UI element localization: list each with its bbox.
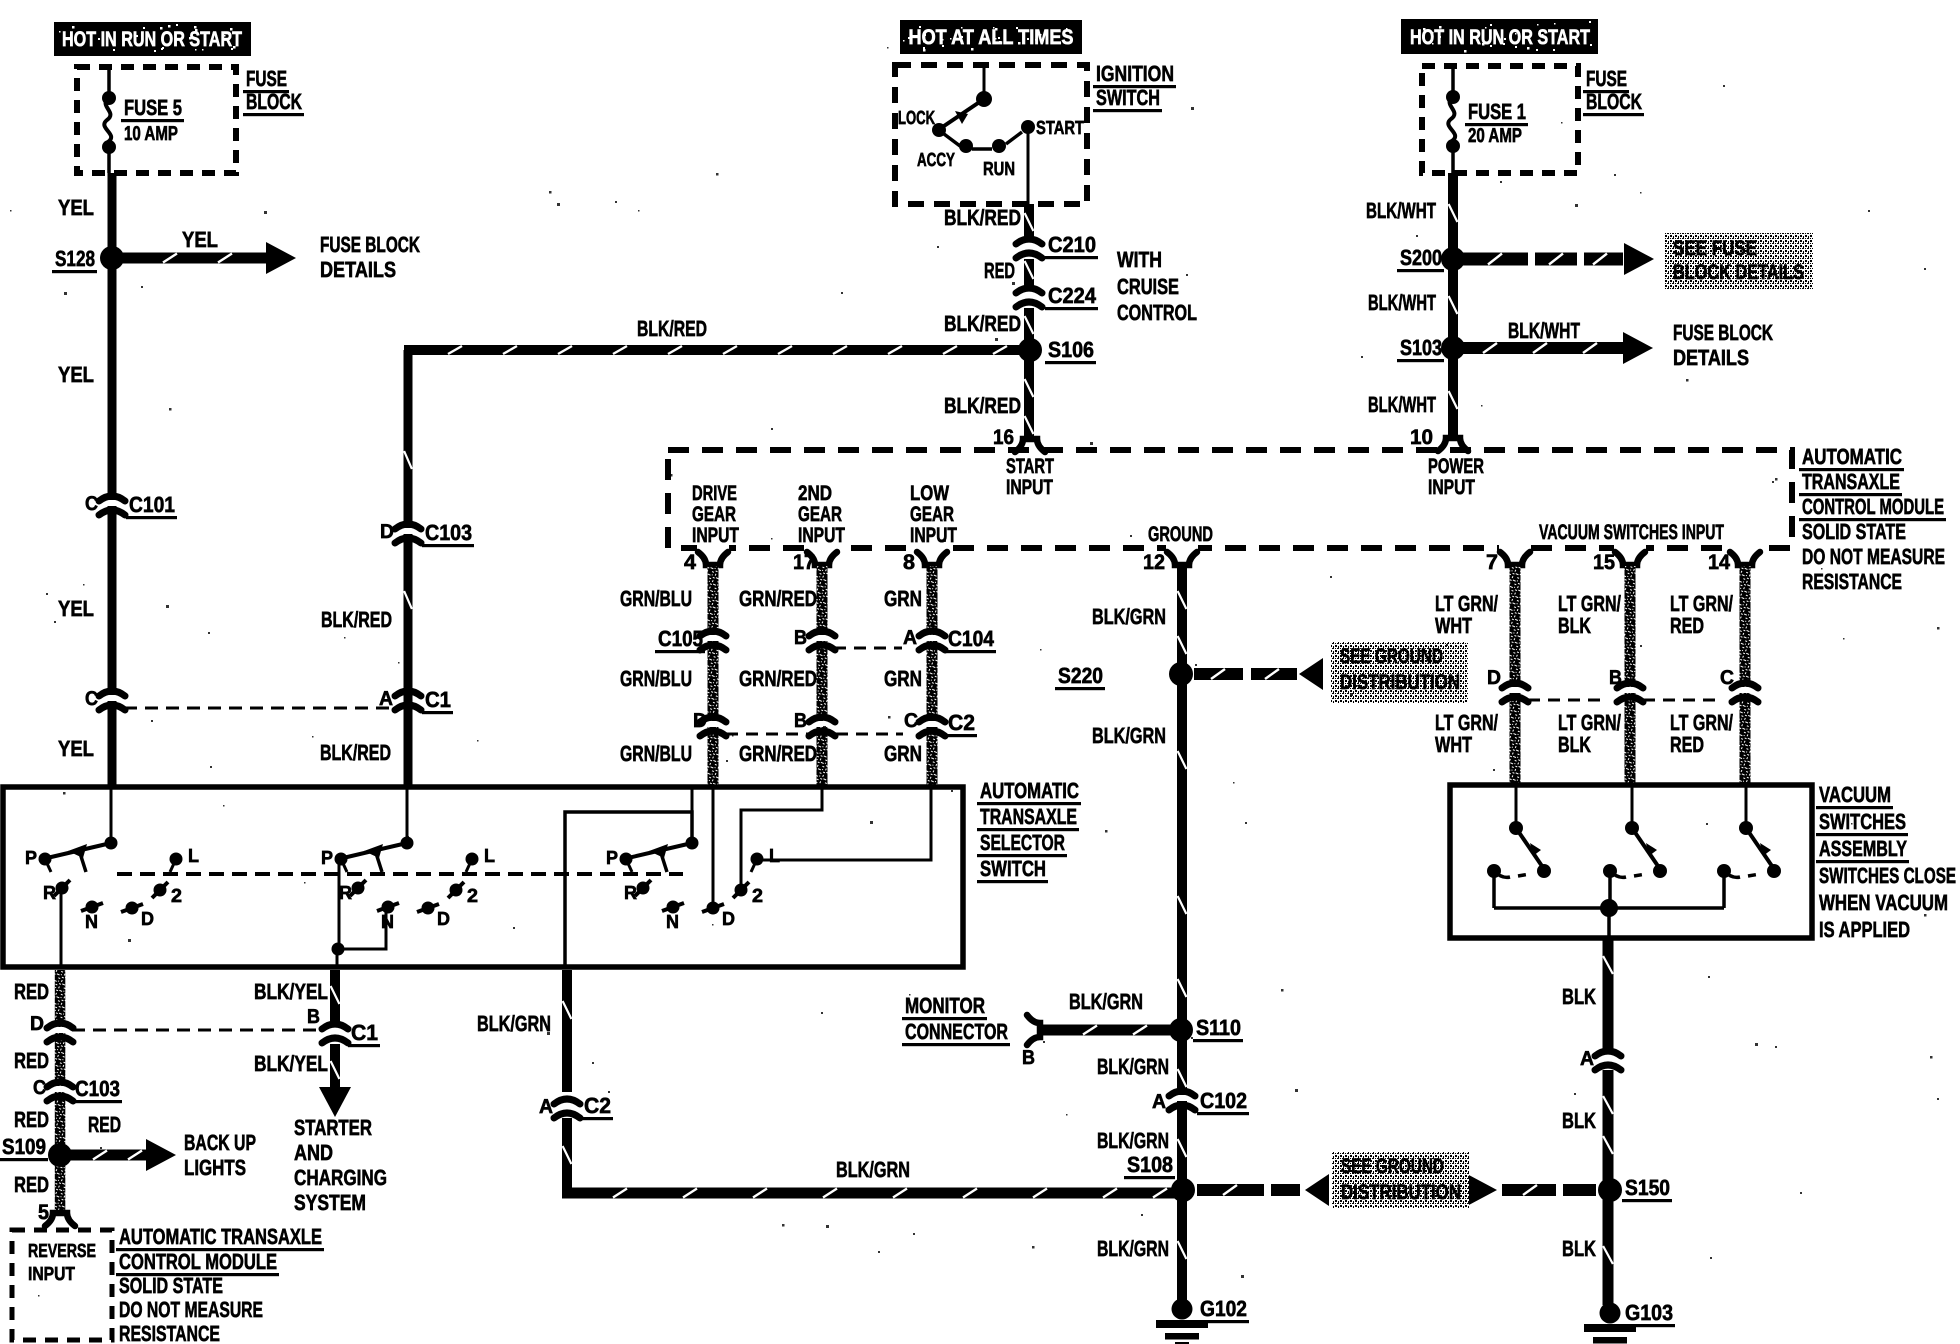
svg-text:FUSE BLOCK: FUSE BLOCK <box>320 232 420 257</box>
vacuum switches common bus <box>1492 871 1496 908</box>
svg-text:DETAILS: DETAILS <box>1673 345 1749 370</box>
svg-text:GRN: GRN <box>884 586 922 611</box>
svg-text:DO NOT MEASURE: DO NOT MEASURE <box>119 1297 263 1322</box>
connector C103 pin C (red wire) <box>47 1082 73 1101</box>
svg-text:2: 2 <box>467 886 478 907</box>
svg-text:SWITCH: SWITCH <box>980 856 1046 881</box>
pin 15 connector <box>1614 545 1646 565</box>
pin 17 connector <box>806 545 838 565</box>
wire GRN/BLU (drive gear) <box>708 566 719 787</box>
wire arrow S128 to fuse block details <box>118 253 268 264</box>
ignition switch box (dashed) <box>895 65 1087 204</box>
connector C104 pin A <box>919 631 945 650</box>
svg-text:INPUT: INPUT <box>798 524 845 547</box>
svg-text:BLOCK: BLOCK <box>246 89 302 114</box>
svg-text:WHT: WHT <box>1435 613 1472 638</box>
vacuum switch 2 stem <box>1631 787 1634 828</box>
wafer 1 stem <box>110 789 113 843</box>
svg-text:S220: S220 <box>1058 663 1103 688</box>
svg-text:SOLID STATE: SOLID STATE <box>119 1273 223 1298</box>
svg-text:BLK: BLK <box>1562 1108 1596 1133</box>
svg-text:S200: S200 <box>1400 245 1442 270</box>
svg-text:D: D <box>141 909 154 930</box>
svg-text:GRN/RED: GRN/RED <box>739 741 817 766</box>
svg-text:C102: C102 <box>1200 1088 1247 1113</box>
svg-text:BLK/WHT: BLK/WHT <box>1368 392 1436 417</box>
wafer 3 wire D up to pin 4 <box>712 789 715 908</box>
automatic transaxle selector switch box <box>3 787 963 967</box>
svg-text:FUSE BLOCK: FUSE BLOCK <box>1673 320 1773 345</box>
svg-text:C101: C101 <box>129 492 175 517</box>
svg-text:FUSE: FUSE <box>1586 66 1627 91</box>
svg-text:START: START <box>1006 455 1054 478</box>
svg-text:BLK/YEL: BLK/YEL <box>254 979 328 1004</box>
svg-text:RED: RED <box>984 258 1015 283</box>
svg-text:STARTER: STARTER <box>294 1115 372 1140</box>
connector C2 pin A <box>554 1099 580 1118</box>
svg-text:BLK/RED: BLK/RED <box>320 740 391 765</box>
svg-text:P: P <box>606 848 618 869</box>
ignition LOCK contact <box>932 123 946 137</box>
svg-text:BLK/YEL: BLK/YEL <box>254 1051 328 1076</box>
power label HOT AT ALL TIMES <box>900 20 1082 54</box>
svg-text:SWITCHES CLOSE: SWITCHES CLOSE <box>1819 863 1956 888</box>
ignition switch arm to LOCK <box>941 99 984 128</box>
highlight box SEE GROUND DISTRIBUTION (bottom) <box>1332 1152 1469 1208</box>
svg-text:LOCK: LOCK <box>898 108 935 129</box>
svg-text:SYSTEM: SYSTEM <box>294 1190 366 1215</box>
svg-text:YEL: YEL <box>58 736 94 761</box>
wafer 2 contact R <box>352 882 365 895</box>
svg-text:GEAR: GEAR <box>692 503 736 526</box>
connector C104 pin B <box>809 631 835 650</box>
svg-text:BLK/RED: BLK/RED <box>637 316 707 341</box>
wire arrow S150 dashes <box>1502 1184 1556 1196</box>
svg-text:SEE GROUND: SEE GROUND <box>1341 1155 1444 1178</box>
svg-text:S109: S109 <box>2 1134 46 1159</box>
svg-text:FUSE: FUSE <box>246 66 287 91</box>
svg-text:A: A <box>903 627 917 649</box>
svg-text:S103: S103 <box>1400 335 1442 360</box>
wire arrow S220 dashes <box>1194 668 1243 680</box>
wire BLK/GRN monitor to S110 <box>1042 1025 1176 1036</box>
svg-text:BLK/GRN: BLK/GRN <box>1097 1236 1169 1261</box>
svg-text:BLK/WHT: BLK/WHT <box>1368 290 1436 315</box>
svg-text:C: C <box>1720 667 1734 689</box>
svg-text:S110: S110 <box>1196 1015 1241 1040</box>
svg-text:GROUND: GROUND <box>1148 523 1213 546</box>
svg-text:C105: C105 <box>658 626 703 651</box>
svg-text:YEL: YEL <box>58 195 94 220</box>
wafer 3 wire pivot to BLK/GRN output <box>565 812 692 966</box>
connector C101 <box>99 496 125 515</box>
svg-text:RESISTANCE: RESISTANCE <box>119 1321 220 1344</box>
svg-text:C210: C210 <box>1048 232 1096 257</box>
connector C224 <box>1016 288 1042 307</box>
svg-text:B: B <box>794 627 807 649</box>
wafer 1 pivot <box>105 837 118 850</box>
svg-text:BLK: BLK <box>1562 1236 1596 1261</box>
ignition pivot stem <box>983 65 986 99</box>
wire BLK/RED horizontal from S106 <box>404 345 1030 355</box>
svg-text:R: R <box>624 883 637 904</box>
wafer 2 stem <box>406 789 409 843</box>
svg-text:A: A <box>1580 1048 1594 1070</box>
wire GRN/RED (2nd gear) <box>817 566 828 787</box>
arrowhead starter and charging system <box>319 1087 351 1117</box>
svg-text:SEE GROUND: SEE GROUND <box>1340 645 1443 668</box>
wire BLK/GRN horizontal to S108 <box>562 1188 1183 1199</box>
svg-text:HOT IN RUN OR START: HOT IN RUN OR START <box>62 28 242 51</box>
splice S220 <box>1169 662 1193 686</box>
pin 4 connector <box>697 545 729 565</box>
wire GRN (low gear) <box>927 566 938 787</box>
wafer 1 contact 2 <box>154 884 167 897</box>
wire BLK/RED C224 to S106 <box>1024 308 1034 350</box>
svg-text:7: 7 <box>1486 551 1498 574</box>
arrowhead S150 see ground distribution <box>1467 1174 1497 1206</box>
ignition RUN contact <box>992 139 1006 153</box>
svg-text:GRN/RED: GRN/RED <box>739 666 817 691</box>
svg-text:SOLID STATE: SOLID STATE <box>1802 519 1906 544</box>
svg-text:LOW: LOW <box>910 482 949 505</box>
vacuum switch 2 moving contact <box>1653 864 1667 878</box>
svg-text:AUTOMATIC: AUTOMATIC <box>1802 444 1902 469</box>
svg-text:10 AMP: 10 AMP <box>124 123 178 145</box>
svg-text:RUN: RUN <box>983 159 1015 180</box>
svg-text:TRANSAXLE: TRANSAXLE <box>1802 469 1900 494</box>
svg-text:CONTROL MODULE: CONTROL MODULE <box>1802 494 1944 519</box>
wafer 1 contact R <box>56 882 69 895</box>
svg-text:L: L <box>769 846 780 867</box>
wire BLK/RED ignition to C210 <box>1024 204 1034 237</box>
svg-text:S128: S128 <box>55 246 95 271</box>
svg-text:YEL: YEL <box>58 362 94 387</box>
svg-text:C103: C103 <box>75 1076 120 1101</box>
connector C1 pin D (red wire) <box>47 1023 73 1042</box>
svg-text:RED: RED <box>88 1112 121 1137</box>
svg-text:L: L <box>188 846 199 867</box>
svg-text:BLK/GRN: BLK/GRN <box>1069 989 1143 1014</box>
svg-text:B: B <box>307 1006 320 1028</box>
svg-text:12: 12 <box>1143 551 1165 574</box>
svg-text:WHT: WHT <box>1435 732 1472 757</box>
reverse input box (dashed) <box>12 1230 112 1340</box>
highlight box SEE FUSE BLOCK DETAILS <box>1665 233 1813 289</box>
wafer 2 contact N <box>382 901 395 914</box>
wafer 3 pivot <box>686 837 699 850</box>
pin 12 connector <box>1166 545 1198 565</box>
svg-text:8: 8 <box>903 551 915 574</box>
svg-text:GRN/RED: GRN/RED <box>739 586 817 611</box>
wafer 2 pivot <box>401 837 414 850</box>
wafer 3 contact L <box>751 853 764 866</box>
connector C103 <box>395 524 421 543</box>
wafer 1 contact D <box>126 902 139 915</box>
pin 8 connector <box>916 545 948 565</box>
svg-text:R: R <box>339 883 352 904</box>
splice S110 <box>1169 1018 1193 1042</box>
svg-text:REVERSE: REVERSE <box>28 1241 96 1262</box>
wafer 3 wire 2 up to pin 17 <box>741 789 822 890</box>
splice S108 <box>1171 1178 1195 1202</box>
selector mechanical dashed linkage <box>117 872 683 876</box>
ignition pivot dot <box>976 91 992 107</box>
splice S200 <box>1441 247 1465 271</box>
connector C1 pin C (left wire) <box>99 691 125 710</box>
svg-text:INPUT: INPUT <box>28 1264 75 1285</box>
wire arrow S103 fuse block details <box>1462 342 1623 354</box>
svg-text:S106: S106 <box>1048 337 1094 362</box>
svg-text:B: B <box>794 710 807 732</box>
svg-text:RED: RED <box>14 1048 49 1073</box>
svg-text:DETAILS: DETAILS <box>320 257 396 282</box>
svg-text:BLOCK: BLOCK <box>1586 89 1642 114</box>
svg-text:AUTOMATIC: AUTOMATIC <box>980 778 1079 803</box>
svg-text:S150: S150 <box>1625 1175 1670 1200</box>
wire BLK assembly to A connector <box>1603 938 1614 1050</box>
wire BLK/YEL C1 to arrow <box>330 1044 340 1087</box>
wafer 1 contact L <box>170 853 183 866</box>
highlight box SEE GROUND DISTRIBUTION (top) <box>1331 642 1468 703</box>
splice S109 <box>48 1143 72 1167</box>
ignition START contact <box>1021 120 1035 134</box>
svg-text:4: 4 <box>684 551 696 574</box>
splice S150 <box>1598 1178 1622 1202</box>
svg-text:GRN/BLU: GRN/BLU <box>620 666 692 691</box>
svg-text:R: R <box>43 883 56 904</box>
connector C1 pin B <box>322 1024 348 1043</box>
svg-text:C: C <box>85 493 98 515</box>
svg-text:FUSE 1: FUSE 1 <box>1468 99 1526 124</box>
dashed link C1 bottom <box>72 1029 320 1032</box>
pin 7 connector <box>1499 545 1531 565</box>
svg-text:BLK/RED: BLK/RED <box>944 205 1021 230</box>
wafer 1 linkage tick <box>79 850 86 872</box>
svg-text:BLK: BLK <box>1562 984 1596 1009</box>
wire BLK/RED S106 to pin 16 <box>1024 350 1034 440</box>
wafer 1 arm to P <box>47 843 111 858</box>
wire LT GRN/RED (pin 14) <box>1740 566 1751 787</box>
vacuum switch 3 arm <box>1746 828 1774 869</box>
svg-text:A: A <box>1152 1091 1166 1113</box>
vacuum switch 1 arm <box>1516 828 1544 869</box>
wafer 3 linkage tick <box>660 850 667 872</box>
connector C210 <box>1016 239 1042 258</box>
svg-text:INPUT: INPUT <box>910 524 957 547</box>
wafer 1 wire R to RED output <box>60 888 63 966</box>
wire YEL vertical from fuse block to selector switch <box>108 173 117 787</box>
wire LT GRN/WHT (pin 7) <box>1510 566 1521 787</box>
wire BLK/GRN ground vertical <box>1177 564 1187 1300</box>
arrowhead S108 see ground distribution <box>1305 1174 1329 1206</box>
wire RED C210 to C224 <box>1024 259 1034 287</box>
svg-text:B: B <box>1022 1047 1035 1069</box>
svg-text:N: N <box>85 912 98 933</box>
svg-text:GRN/BLU: GRN/BLU <box>620 586 692 611</box>
svg-text:BLK: BLK <box>1558 613 1591 638</box>
vacuum switches assembly box <box>1450 785 1812 938</box>
svg-text:HOT AT ALL TIMES: HOT AT ALL TIMES <box>909 26 1074 49</box>
svg-text:15: 15 <box>1593 551 1615 574</box>
svg-text:C: C <box>85 688 98 710</box>
wire BLK A to S150 <box>1603 1070 1614 1305</box>
svg-text:C104: C104 <box>948 626 995 651</box>
svg-text:SEE FUSE: SEE FUSE <box>1673 237 1757 260</box>
splice S128 <box>100 246 124 270</box>
splice S106 <box>1018 338 1042 362</box>
svg-text:HOT IN RUN OR START: HOT IN RUN OR START <box>1410 26 1590 49</box>
dashed link C2 B-C <box>836 733 903 736</box>
power label HOT IN RUN OR START (right) <box>1401 19 1598 54</box>
svg-text:C: C <box>33 1077 46 1099</box>
wafer 2 junction dot <box>332 943 345 956</box>
wafer 3 stem <box>691 789 694 843</box>
svg-text:WITH: WITH <box>1117 247 1162 272</box>
svg-text:AND: AND <box>294 1140 333 1165</box>
svg-text:VACUUM: VACUUM <box>1819 782 1891 807</box>
dashed link C2 D-B <box>726 733 810 736</box>
svg-text:P: P <box>25 848 37 869</box>
connector C105 <box>700 631 726 650</box>
svg-text:RED: RED <box>14 979 49 1004</box>
svg-text:C1: C1 <box>425 687 451 712</box>
svg-text:WHEN VACUUM: WHEN VACUUM <box>1819 890 1948 915</box>
wafer 3 arm to P <box>628 843 692 858</box>
svg-text:BLK/GRN: BLK/GRN <box>1097 1054 1169 1079</box>
wire BLK/GRN c2 to corner <box>562 1118 572 1198</box>
wafer 3 contact N <box>667 901 680 914</box>
wire BLK/YEL selector to C1 <box>330 970 340 1022</box>
svg-text:2: 2 <box>171 886 182 907</box>
arrowhead S220 see ground distribution <box>1299 658 1323 690</box>
svg-text:CRUISE: CRUISE <box>1117 274 1179 299</box>
svg-text:CONTROL: CONTROL <box>1117 300 1197 325</box>
pin 10 connector <box>1438 438 1468 451</box>
vacuum switch 1 moving contact <box>1537 864 1551 878</box>
svg-text:BLK/GRN: BLK/GRN <box>477 1011 551 1036</box>
svg-text:C1: C1 <box>351 1020 378 1045</box>
wire BLK/RED vertical to selector switch <box>404 350 413 787</box>
vacuum switch 3 stem <box>1745 787 1748 828</box>
svg-text:P: P <box>321 848 333 869</box>
svg-text:MONITOR: MONITOR <box>905 993 985 1018</box>
svg-text:17: 17 <box>793 551 815 574</box>
svg-text:INPUT: INPUT <box>692 524 739 547</box>
vacuum switch 2 pivot <box>1625 821 1639 835</box>
svg-text:YEL: YEL <box>182 227 218 252</box>
svg-text:INPUT: INPUT <box>1428 476 1475 499</box>
ground G103 <box>1584 1303 1636 1344</box>
svg-text:GEAR: GEAR <box>910 503 954 526</box>
connector C2g pin B <box>809 717 835 736</box>
svg-text:DISTRIBUTION: DISTRIBUTION <box>1340 671 1460 694</box>
svg-text:CONTROL MODULE: CONTROL MODULE <box>119 1249 277 1274</box>
svg-text:D: D <box>722 909 735 930</box>
svg-text:BACK UP: BACK UP <box>184 1130 256 1155</box>
dashed link C1 <box>124 707 392 710</box>
svg-text:ACCY: ACCY <box>917 150 955 171</box>
svg-text:20 AMP: 20 AMP <box>1468 125 1522 147</box>
svg-text:A: A <box>379 688 393 710</box>
svg-text:AUTOMATIC TRANSAXLE: AUTOMATIC TRANSAXLE <box>119 1224 322 1249</box>
svg-text:CONNECTOR: CONNECTOR <box>905 1019 1008 1044</box>
pin 14 connector <box>1729 545 1761 565</box>
svg-text:GRN/BLU: GRN/BLU <box>620 741 692 766</box>
wire arrow S200 see fuse block details <box>1462 253 1528 266</box>
fuse F5 symbol <box>102 67 116 173</box>
svg-text:BLK/WHT: BLK/WHT <box>1366 198 1436 223</box>
dashed link vac B-C <box>1643 699 1720 702</box>
svg-text:BLK/RED: BLK/RED <box>944 393 1021 418</box>
svg-text:GRN: GRN <box>884 741 922 766</box>
svg-text:VACUUM SWITCHES INPUT: VACUUM SWITCHES INPUT <box>1539 521 1724 544</box>
wire BLK/GRN from selector switch down <box>562 970 572 1092</box>
vacuum switch 1 pivot <box>1509 821 1523 835</box>
svg-text:L: L <box>484 846 495 867</box>
svg-text:SWITCHES: SWITCHES <box>1819 809 1906 834</box>
svg-text:RED: RED <box>1670 732 1704 757</box>
vacuum switch 1 fixed contact <box>1487 864 1501 878</box>
svg-text:G103: G103 <box>1625 1300 1673 1325</box>
svg-text:CHARGING: CHARGING <box>294 1165 387 1190</box>
wafer 2 contact 2 <box>450 884 463 897</box>
svg-text:5: 5 <box>38 1201 49 1224</box>
wafer 3 contact R <box>637 882 650 895</box>
connector C2g pin C <box>919 717 945 736</box>
wire RED selector to reverse input <box>55 970 66 1212</box>
svg-text:BLK/GRN: BLK/GRN <box>1092 604 1166 629</box>
svg-text:GEAR: GEAR <box>798 503 842 526</box>
wire BLK/WHT fuse1 to pin 10 <box>1448 173 1458 437</box>
ground G102 <box>1156 1299 1208 1344</box>
fuse block box (left, dashed) <box>77 67 236 173</box>
splice S103 <box>1441 336 1465 360</box>
automatic transaxle control module box (dashed) <box>668 450 1792 548</box>
vacuum switch 2 fixed contact <box>1603 864 1617 878</box>
dashed link C104 <box>834 647 902 650</box>
svg-text:G102: G102 <box>1200 1296 1247 1321</box>
svg-text:IGNITION: IGNITION <box>1096 61 1174 86</box>
svg-text:C2: C2 <box>948 710 975 735</box>
svg-text:RESISTANCE: RESISTANCE <box>1802 569 1902 594</box>
svg-text:D: D <box>380 521 394 543</box>
svg-text:RED: RED <box>1670 613 1704 638</box>
wire arrow S108 dashes <box>1197 1184 1264 1196</box>
svg-text:A: A <box>539 1096 553 1118</box>
svg-text:BLK/GRN: BLK/GRN <box>836 1157 910 1182</box>
connector C102 <box>1169 1091 1195 1110</box>
svg-text:16: 16 <box>993 426 1014 449</box>
svg-text:S108: S108 <box>1127 1152 1173 1177</box>
svg-text:B: B <box>1609 667 1622 689</box>
ignition ACCY contact <box>959 139 973 153</box>
svg-text:2: 2 <box>752 886 763 907</box>
wafer 1 contact N <box>86 901 99 914</box>
svg-text:D: D <box>1487 667 1501 689</box>
svg-text:2ND: 2ND <box>798 482 832 505</box>
svg-text:GRN: GRN <box>884 666 922 691</box>
svg-text:C: C <box>904 710 918 732</box>
svg-text:BLOCK DETAILS: BLOCK DETAILS <box>1673 261 1804 284</box>
svg-text:DO NOT MEASURE: DO NOT MEASURE <box>1802 544 1945 569</box>
svg-text:14: 14 <box>1708 551 1730 574</box>
ignition contact chain <box>944 134 960 146</box>
svg-text:D: D <box>437 909 450 930</box>
wafer 2 contact P <box>335 853 348 866</box>
wafer 3 contact 2 <box>735 884 748 897</box>
wafer 2 linkage tick <box>375 850 382 872</box>
